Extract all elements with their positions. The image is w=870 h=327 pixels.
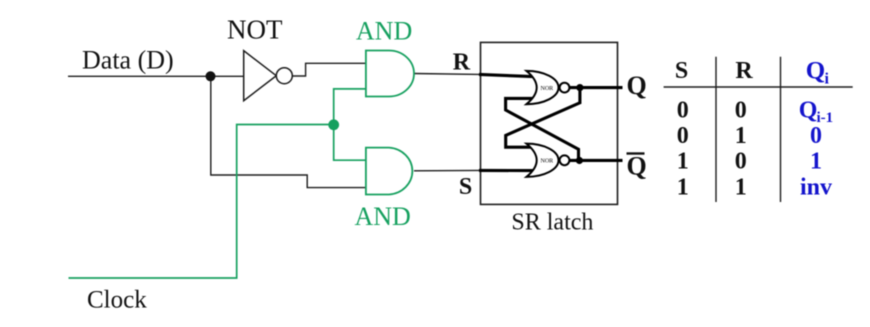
svg-text:S: S: [675, 58, 688, 84]
svg-text:NOR: NOR: [541, 86, 554, 92]
svg-text:0: 0: [677, 123, 689, 149]
svg-text:Clock: Clock: [87, 287, 147, 314]
svg-text:0: 0: [735, 149, 747, 175]
svg-text:1: 1: [810, 149, 822, 175]
svg-text:R: R: [735, 58, 753, 84]
svg-text:0: 0: [735, 98, 747, 124]
svg-text:Q: Q: [806, 58, 825, 85]
svg-text:S: S: [459, 174, 472, 200]
svg-text:0: 0: [810, 123, 822, 149]
svg-text:NOT: NOT: [227, 15, 283, 45]
svg-text:1: 1: [677, 149, 689, 175]
svg-text:AND: AND: [355, 202, 411, 231]
svg-text:Data (D): Data (D): [82, 46, 174, 75]
svg-text:NOR: NOR: [541, 159, 554, 165]
svg-text:Q: Q: [627, 152, 647, 181]
svg-text:R: R: [453, 50, 471, 76]
svg-text:AND: AND: [356, 16, 412, 45]
svg-text:1: 1: [735, 175, 747, 201]
svg-text:1: 1: [677, 175, 689, 201]
svg-text:i: i: [825, 71, 830, 88]
svg-text:inv: inv: [800, 175, 832, 201]
svg-text:Q: Q: [799, 98, 818, 124]
svg-text:Q: Q: [627, 71, 647, 100]
svg-text:0: 0: [677, 98, 689, 124]
svg-text:SR latch: SR latch: [511, 210, 593, 236]
svg-text:1: 1: [735, 123, 747, 149]
